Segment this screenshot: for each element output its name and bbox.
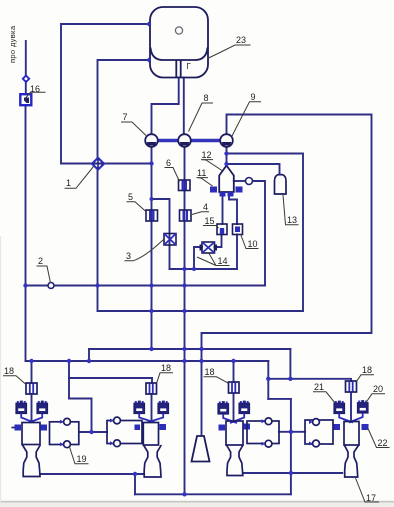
wire: engine2 chamber feed down [151, 394, 153, 421]
leader 15 [203, 226, 219, 229]
component 6 pyro valve [179, 180, 191, 191]
engine1 side blob right [41, 425, 48, 431]
engine2 chamber [143, 423, 158, 446]
svg-text:18: 18 [362, 365, 372, 375]
leader 22 [368, 429, 390, 448]
leader 11 [197, 178, 213, 186]
wire: fuel outlet from tank to valve8 [183, 78, 185, 135]
wire: manifold h_a y349 [89, 348, 290, 350]
wire: comp14 left to bus y269 [194, 247, 202, 269]
svg-text:8: 8 [204, 93, 209, 103]
wire: comp15 feed [222, 197, 224, 225]
leader 12 [201, 160, 222, 171]
engine4 solenoid right (20) [358, 400, 369, 413]
svg-text:22: 22 [378, 438, 388, 448]
wire: purge line below diamond [25, 83, 27, 94]
engine4 side blob right [362, 424, 369, 430]
wire: engine1 18 riser [31, 361, 33, 383]
svg-text:3: 3 [126, 251, 131, 261]
tank 23 outline [150, 7, 208, 78]
svg-text:23: 23 [236, 35, 246, 45]
wire: h_a step down at x89 [88, 349, 90, 361]
injector bottom blob b [228, 192, 234, 197]
tank connector top [146, 22, 151, 27]
svg-text:14: 14 [218, 256, 228, 266]
wire: engine1 chamber feed down [31, 394, 33, 421]
scan border left strip [0, 236, 1, 502]
engine1 block port top [64, 418, 71, 425]
engine4 solenoid left (21) [334, 401, 345, 414]
component 5 pyro valve [146, 210, 158, 221]
wire: h_b drop x268.3 [267, 361, 269, 399]
engine1 chamber [22, 423, 40, 445]
wire: valve1 down to inner loop [97, 168, 99, 311]
engine1 slant feeds [21, 414, 34, 423]
component 15 [217, 224, 227, 235]
engine3 solenoid right [239, 401, 250, 414]
leader 18c [204, 377, 229, 383]
valve 1 (circle with cross) [92, 158, 104, 170]
ENGINES [12, 381, 369, 477]
engine1 solenoid left [16, 401, 27, 414]
injector bottom blob a [220, 192, 226, 197]
engine4 18 pyro valve [346, 381, 357, 392]
wire: purge vertical line x25.5 [25, 41, 27, 75]
wire: interblock connector right [279, 431, 305, 433]
wire: manifold h_b y361 [26, 360, 269, 362]
wire: circle valve to x265 down to bus [253, 181, 266, 286]
letter O in tank [175, 27, 182, 34]
leader 14 [197, 254, 230, 266]
engine4 chamber (22) [344, 422, 359, 446]
wire: line2 to bottle13 [227, 164, 280, 174]
leader 8 [189, 103, 214, 132]
leader 18d [357, 375, 375, 382]
leader 6 [165, 168, 180, 182]
wire: engine3 18 riser [233, 361, 235, 382]
leader 2 [37, 266, 51, 283]
leader 21 [313, 392, 335, 403]
engine2 nozzle [144, 445, 162, 477]
valve 7 seat detail [147, 142, 157, 146]
svg-text:1: 1 [66, 178, 71, 188]
svg-text:5: 5 [128, 192, 133, 202]
leader 7 [121, 122, 146, 136]
wire: jog y398.9 to right riser [268, 398, 291, 400]
valve 8 [178, 134, 191, 147]
engine2 solenoid right [158, 401, 169, 414]
wire: comp15 bottom to comp14 [215, 235, 222, 248]
wire: comp10 feed jog from GG [229, 197, 237, 225]
wire: inner loop line1 y153.5 [98, 154, 304, 312]
component 10 [233, 224, 243, 235]
bottle 13 [275, 175, 287, 194]
engine4 block port bottom [313, 440, 320, 447]
leader 10 [241, 234, 259, 249]
svg-text:про дувка: про дувка [8, 25, 17, 63]
leader 13 [283, 195, 299, 225]
engine2 18 pyro valve [146, 383, 157, 394]
wire: feed line y378.8 to engine4 [268, 379, 351, 381]
leader 9 [232, 102, 261, 136]
thick manifold bar between valves 7-9 [152, 139, 226, 142]
svg-text:2: 2 [38, 256, 43, 266]
component 14 valve with X and tabs [201, 242, 217, 253]
svg-text:20: 20 [373, 384, 383, 394]
tank 23 internal pipe walls [176, 60, 180, 78]
spare nozzle center [192, 436, 210, 462]
svg-text:7: 7 [123, 112, 128, 122]
svg-text:16: 16 [30, 84, 40, 94]
scan border bottom strip [0, 501, 394, 503]
engine3 chamber [226, 421, 243, 445]
engine3 side blob left [219, 425, 226, 431]
leader 19 [70, 447, 89, 464]
wire: horizontal to valve 1 y163.5 [61, 163, 152, 165]
leader 17 [356, 478, 380, 502]
wire: purge line below square16 down to manifold [25, 106, 27, 362]
leader 4 [192, 212, 209, 215]
component 4 pyro valve [180, 210, 192, 221]
wire: valve8 down line x184.5 full [184, 147, 186, 494]
leader 5 [127, 202, 147, 212]
engine1 block port bottom [64, 441, 71, 448]
engine1 left stub [12, 427, 15, 429]
valve 9 [220, 134, 233, 147]
leader 23 [208, 45, 251, 59]
engine1 side blob left [15, 425, 22, 431]
engine3 nozzle [227, 445, 244, 476]
circle valve right of GG [246, 178, 253, 185]
engine2 side blob left [135, 425, 141, 431]
wire: branch to comp3 x169.5 [152, 199, 170, 269]
svg-text:10: 10 [248, 239, 258, 249]
wire: drop x69 from h_b [68, 361, 70, 399]
engine2 slant feeds [139, 414, 155, 423]
valve 9 seat detail [222, 142, 232, 146]
wire: drop x135 to bottom bus [134, 474, 136, 494]
wire: gas generator right outlet to circle valve [234, 180, 246, 182]
engine4 block port top [313, 419, 320, 426]
component 3 valve with X [164, 234, 176, 246]
purge check valve diamond [22, 74, 31, 83]
engine2 solenoid left [134, 401, 145, 414]
orifice circle on bus (2) [48, 283, 54, 289]
engine3 block port bottom [265, 440, 272, 447]
svg-text:Г: Г [187, 62, 192, 71]
svg-text:4: 4 [203, 202, 208, 212]
wire: tank mid line y60 down to valve 1 [98, 60, 149, 159]
svg-text:13: 13 [287, 215, 297, 225]
svg-text:18: 18 [4, 366, 14, 376]
svg-text:18: 18 [161, 363, 171, 373]
leader 1 [65, 167, 94, 189]
wire: valve7 down line x151.5 [151, 147, 153, 349]
leader 18b [157, 373, 174, 384]
valve 7 [145, 134, 158, 147]
svg-text:6: 6 [166, 158, 171, 168]
wire: engine4 chamber feed down [350, 393, 352, 422]
svg-text:21: 21 [314, 382, 324, 392]
wire: h_a drop x290.4 to y378.8 line [289, 349, 291, 379]
engine3 solenoid left [218, 401, 229, 414]
svg-text:9: 9 [251, 92, 256, 102]
wire: jog to interblock x91.5 [69, 399, 92, 433]
wire: interblock connector left [79, 431, 107, 433]
wire: right riser x290.9 from jog down to bottom bus [290, 399, 292, 494]
engine4 side blob left [333, 424, 340, 430]
engine4 slant feeds [339, 414, 353, 423]
engine3 18 pyro valve [229, 382, 240, 393]
engine3 slant feeds [223, 414, 237, 423]
wire: bell link left y474 [41, 473, 144, 475]
svg-text:19: 19 [77, 454, 87, 464]
engine1 valve block [50, 422, 79, 445]
valve 8 seat detail [180, 142, 190, 146]
wire: bottom bus y495 [135, 493, 291, 495]
wire: valve9 up and big right loop [202, 115, 372, 436]
wire: engine3 chamber feed down [233, 394, 235, 422]
gas generator 12 [219, 166, 234, 193]
svg-text:11: 11 [197, 168, 206, 178]
engine4 valve block [305, 420, 333, 444]
leader 20 [366, 394, 385, 403]
engine3 valve block [247, 421, 279, 444]
component 16 square with fill [20, 94, 31, 105]
engine1 nozzle [23, 445, 41, 477]
engine2 valve block [107, 421, 142, 444]
injectors right blob [236, 187, 243, 193]
engine3 block port top [265, 418, 272, 425]
engine2 block port top [114, 417, 121, 424]
wire: left feed y378 to engine2 [69, 378, 152, 383]
engine1 solenoid right [37, 401, 48, 414]
svg-text:15: 15 [205, 216, 215, 226]
engine4 nozzle (17) [344, 445, 358, 477]
engine1 18 pyro valve [26, 383, 37, 394]
svg-text:12: 12 [202, 150, 212, 160]
wire: valve9 down to gas generator [226, 147, 228, 166]
engine2 side blob right [160, 424, 167, 430]
tank 23 inner dome [151, 48, 208, 61]
leader 3 [125, 240, 164, 261]
tank connector mid [146, 58, 151, 63]
leader 16 [26, 92, 46, 97]
wire: bell link right y473 [243, 472, 342, 474]
svg-text:18: 18 [205, 367, 215, 377]
svg-text:17: 17 [366, 493, 376, 503]
leader 18a [3, 376, 26, 384]
engine3 side blob right [244, 424, 251, 430]
wire: comp10 bottom to bus y269 [236, 235, 238, 270]
wire: mid bus y269 [170, 268, 238, 270]
wire: oxidizer outlet from tank x178.7 with step to valve7 [152, 78, 179, 135]
wire: tank top pressurization line y24 [61, 24, 149, 164]
wire: long bus y285.5 [26, 285, 266, 287]
engine2 block port bottom [114, 440, 121, 447]
injectors 11 left blob [210, 187, 217, 193]
